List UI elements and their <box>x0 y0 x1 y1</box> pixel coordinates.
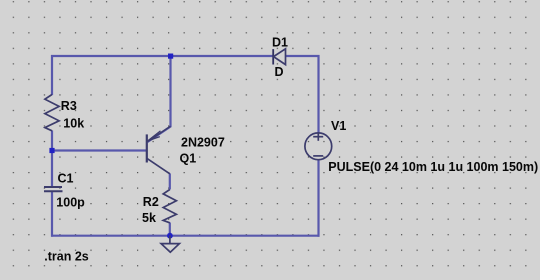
voltage source V1 minus bar <box>313 155 323 157</box>
wire collector to bottom <box>169 223 171 237</box>
svg-text:R2: R2 <box>143 195 159 209</box>
voltage source V1 circle <box>305 133 332 160</box>
svg-text:10k: 10k <box>63 117 84 131</box>
wire left rail middle <box>51 131 53 188</box>
ground stub <box>169 236 171 244</box>
ground symbol <box>161 244 179 253</box>
transistor Q1 emitter diagonal <box>147 126 170 142</box>
svg-text:100p: 100p <box>56 195 85 209</box>
svg-text:.tran 2s: .tran 2s <box>44 250 89 264</box>
wire top rail left segment <box>51 55 273 57</box>
resistor R2 <box>163 190 176 223</box>
wire left rail lower <box>51 191 53 237</box>
transistor Q1 emitter arrow <box>148 131 161 141</box>
wire bottom rail <box>51 235 320 237</box>
svg-text:PULSE(0 24 10m 1u 1u 100m 150m: PULSE(0 24 10m 1u 1u 100m 150m) <box>328 160 538 174</box>
svg-text:5k: 5k <box>142 211 156 225</box>
junction node left rail <box>49 148 54 153</box>
diode D1 cathode bar <box>272 49 274 64</box>
transistor Q1 base bar <box>146 134 148 162</box>
wire emitter vertical <box>148 56 171 142</box>
wire top rail right segment <box>285 55 319 57</box>
wire right rail lower <box>317 160 319 237</box>
svg-text:D1: D1 <box>272 35 288 49</box>
junction node bottom rail <box>167 233 173 239</box>
svg-text:Q1: Q1 <box>180 152 197 166</box>
diode D1 triangle <box>274 49 286 65</box>
transistor Q1 collector diagonal <box>147 158 170 173</box>
svg-text:D: D <box>275 65 284 79</box>
svg-text:V1: V1 <box>331 119 346 133</box>
capacitor C1 top plate <box>44 186 62 188</box>
svg-text:2N2907: 2N2907 <box>181 135 225 149</box>
voltage source V1 plus bar <box>313 136 323 138</box>
svg-text:C1: C1 <box>58 172 74 186</box>
voltage source V1 plus stem <box>317 133 319 141</box>
resistor R3 <box>45 95 59 131</box>
capacitor C1 bottom plate <box>44 190 63 192</box>
wire right rail upper <box>317 55 319 133</box>
wire collector vertical <box>169 174 171 190</box>
wire base <box>52 149 147 151</box>
junction node top rail <box>168 54 173 59</box>
wire left rail upper <box>51 55 53 95</box>
svg-text:R3: R3 <box>61 99 77 113</box>
